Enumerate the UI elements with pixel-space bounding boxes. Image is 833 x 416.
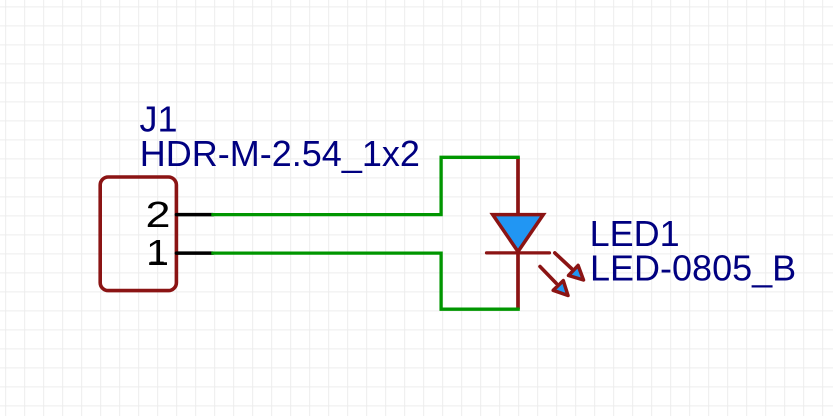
svg-text:1: 1 (146, 232, 169, 273)
LED1 cathode bar (487, 251, 550, 254)
svg-text:HDR-M-2.54_1x2: HDR-M-2.54_1x2 (140, 133, 420, 174)
connector J1 body (100, 177, 176, 291)
pin 1 stub (176, 251, 213, 255)
pin 1 number (146, 232, 169, 273)
wire pin2 to LED anode (net segment) (211, 157, 520, 214)
LED1 light emission arrow upper (555, 253, 584, 280)
LED1 anode lead wire (516, 157, 520, 214)
pin 2 stub (176, 213, 213, 217)
LED1 triangle (anode) (493, 215, 544, 252)
svg-text:2: 2 (146, 194, 171, 235)
LED1 cathode lead wire (516, 253, 520, 309)
LED1 light emission arrow lower (540, 267, 568, 296)
wire pin1 to LED cathode (net segment) (211, 253, 520, 309)
svg-text:LED-0805_B: LED-0805_B (590, 248, 796, 289)
